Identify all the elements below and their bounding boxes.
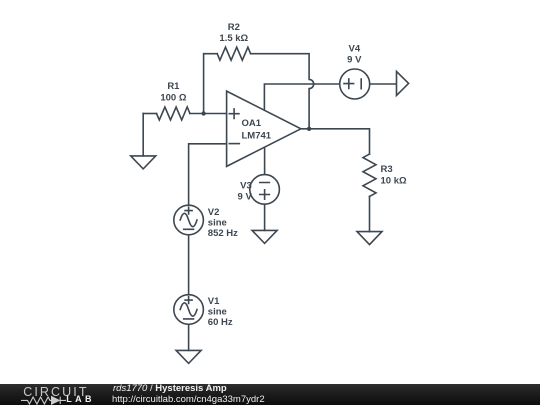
svg-text:1.5 kΩ: 1.5 kΩ	[219, 33, 248, 44]
wire (V1 to ground)	[188, 324, 190, 350]
wire (op-amp V+ pin riser and rail to V4)	[264, 84, 339, 110]
svg-text:9 V: 9 V	[238, 191, 253, 202]
ground (under R1)	[131, 156, 156, 169]
output port flag	[397, 71, 409, 95]
op-amp - input mark	[229, 143, 239, 145]
op-amp + input mark	[229, 109, 239, 119]
svg-text:R2: R2	[228, 22, 240, 33]
svg-text:sine: sine	[208, 218, 227, 229]
footer bar	[0, 384, 540, 405]
plot title	[113, 383, 227, 394]
CircuitLab logo	[0, 384, 100, 405]
wire (R1 right to op-amp + input, through node A)	[190, 113, 227, 115]
svg-text:OA1: OA1	[242, 118, 262, 129]
wire (R2 right, feedback run with hop over V+ rail, down to output node)	[251, 54, 314, 129]
wire (V3 to ground)	[264, 204, 266, 230]
svg-text:100 Ω: 100 Ω	[160, 93, 186, 104]
wire (op-amp V- pin to V3)	[264, 147, 266, 174]
wire (V2 to V1)	[188, 235, 190, 295]
ground (bottom, under V1)	[176, 350, 201, 363]
svg-text:V2: V2	[208, 207, 220, 218]
op-amp OA1 (LM741) triangle	[227, 91, 301, 166]
plot url	[112, 394, 265, 405]
svg-text:V3: V3	[240, 181, 252, 192]
sine source V2 (852 Hz)	[174, 205, 204, 235]
svg-text:sine: sine	[208, 306, 227, 317]
ground (under R3)	[357, 232, 382, 245]
wire (input node to R1 left)	[143, 113, 156, 115]
resistor R3	[363, 154, 376, 196]
wire (node A riser up to R2 left)	[204, 54, 218, 114]
resistor R2	[217, 47, 250, 60]
svg-text:LM741: LM741	[242, 130, 272, 141]
wire (V4 to output port)	[370, 83, 397, 85]
voltage source V3 (9 V)	[250, 175, 280, 205]
voltage source V4 (9 V)	[340, 69, 370, 99]
wire (stem to ground under R1)	[142, 114, 144, 156]
ground (under V3)	[252, 230, 277, 243]
svg-text:V4: V4	[348, 43, 360, 54]
svg-text:852 Hz: 852 Hz	[208, 228, 238, 239]
svg-text:9 V: 9 V	[347, 55, 362, 66]
svg-text:LAB: LAB	[66, 394, 95, 404]
sine source V1 (60 Hz)	[174, 295, 204, 325]
output node junction (op-amp output / feedback / R3)	[307, 127, 311, 131]
wire (R3 bottom to ground)	[369, 196, 371, 231]
svg-text:V1: V1	[208, 296, 220, 307]
node A junction (op-amp + input / R1 / R2)	[201, 111, 205, 115]
svg-text:10 kΩ: 10 kΩ	[381, 176, 407, 187]
svg-text:60 Hz: 60 Hz	[208, 317, 233, 328]
svg-text:R1: R1	[167, 81, 180, 92]
wire (op-amp - input to V2 riser)	[189, 144, 227, 205]
resistor R1	[157, 107, 190, 120]
wire (op-amp output node to R3 top)	[301, 129, 370, 154]
svg-text:R3: R3	[381, 164, 393, 175]
